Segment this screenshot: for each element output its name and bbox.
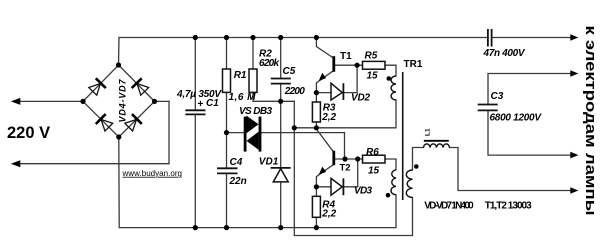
svg-text:2,2: 2,2 [321, 208, 336, 219]
svg-text:220 V: 220 V [7, 124, 50, 142]
svg-text:VD4-VD7: VD4-VD7 [117, 79, 127, 123]
svg-text:6800 1200V: 6800 1200V [490, 113, 543, 124]
svg-text:15: 15 [367, 70, 379, 81]
svg-text:T1: T1 [340, 51, 352, 62]
svg-text:www.budyan.org: www.budyan.org [122, 169, 183, 178]
svg-text:C1: C1 [206, 98, 219, 109]
svg-text:+: + [198, 99, 204, 110]
svg-text:2200: 2200 [284, 86, 305, 97]
svg-text:R1: R1 [234, 70, 247, 81]
svg-text:VS DB3: VS DB3 [239, 106, 272, 117]
svg-text:15: 15 [368, 165, 380, 176]
svg-text:T1,T2 13003: T1,T2 13003 [485, 200, 532, 211]
svg-text:VD-VD7 1N400: VD-VD7 1N400 [424, 200, 474, 211]
svg-text:T2: T2 [340, 162, 351, 173]
svg-text:1,6 M: 1,6 M [229, 92, 257, 103]
svg-text:TR1: TR1 [404, 59, 423, 70]
svg-text:R5: R5 [365, 50, 378, 61]
svg-text:620k: 620k [259, 58, 279, 69]
svg-text:47n 400V: 47n 400V [483, 48, 526, 59]
svg-text:к электродам лампы: к электродам лампы [582, 26, 599, 216]
svg-text:C3: C3 [491, 91, 504, 102]
svg-text:C4: C4 [230, 157, 243, 168]
svg-text:R6: R6 [366, 147, 379, 158]
svg-text:C5: C5 [283, 66, 296, 77]
svg-text:VD3: VD3 [354, 186, 372, 197]
svg-text:2,2: 2,2 [321, 112, 336, 123]
svg-text:VD1: VD1 [259, 156, 279, 167]
svg-text:22n: 22n [229, 176, 247, 187]
svg-text:VD2: VD2 [351, 93, 370, 104]
svg-text:L1: L1 [425, 128, 432, 136]
